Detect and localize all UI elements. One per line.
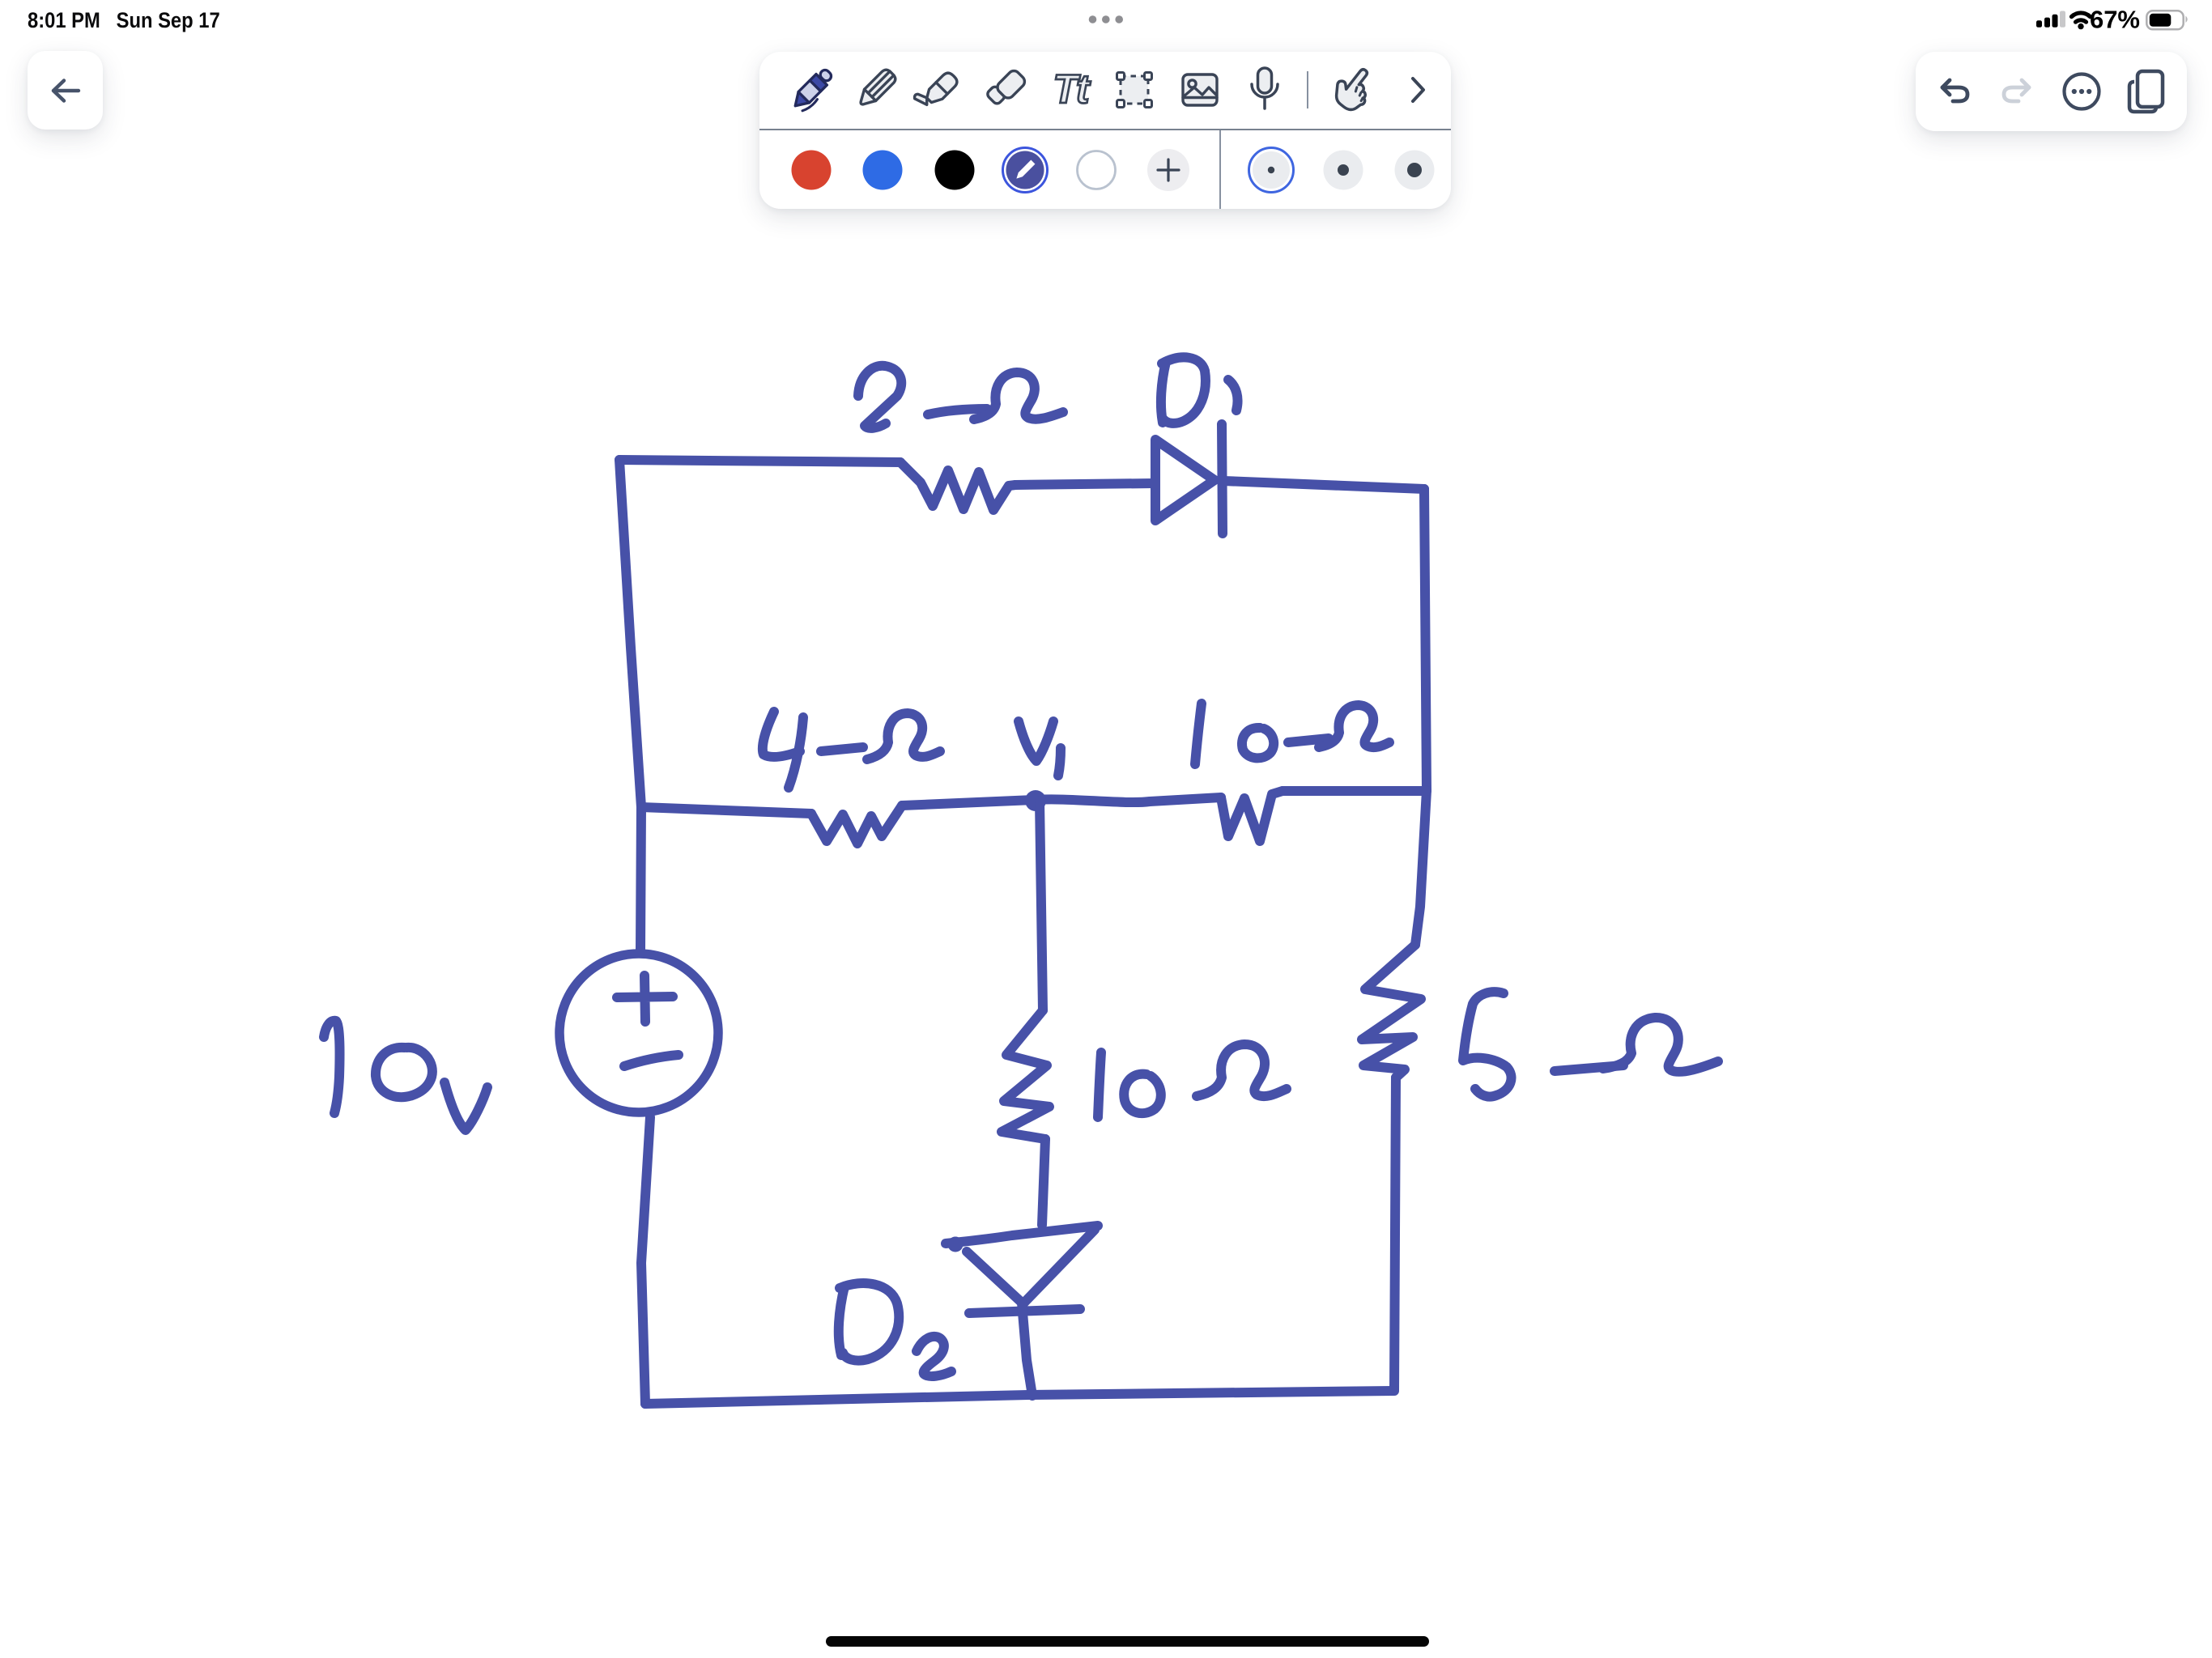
eraser tool (986, 67, 1027, 108)
duplicate (2129, 71, 2163, 112)
wire source bottom to corner (641, 1117, 650, 1404)
redo (2004, 80, 2029, 101)
back button panel (28, 51, 103, 130)
select tool (1117, 73, 1152, 108)
diode D2 cathode bar (969, 1309, 1080, 1313)
status bar center dots (1085, 15, 1134, 25)
add color plus (1147, 149, 1189, 191)
resistor R5 5ohm (1362, 945, 1421, 1078)
voltage source V 10V circle (559, 954, 718, 1112)
diode D2 triangle (967, 1230, 1095, 1303)
right panel: undo redo more duplicate (1916, 52, 2187, 131)
label 10ohm vertical (1098, 1052, 1101, 1117)
home indicator (826, 1636, 1429, 1647)
image tool (1183, 74, 1217, 105)
hand tool (1329, 62, 1380, 115)
stroke size medium (1324, 151, 1363, 190)
wire top from corner to R1 (619, 460, 900, 462)
wire left vertical (619, 460, 641, 950)
stroke size small (selected) (1249, 148, 1294, 193)
resistor R4 10ohm vertical (1002, 1010, 1049, 1139)
undo (1942, 80, 1967, 101)
wire R2 to node V1 (902, 800, 1035, 806)
label 4ohm (763, 712, 803, 788)
resistor R3 10ohm horizontal (1221, 791, 1283, 841)
wire R3 to right vertical (1283, 786, 1427, 796)
wire R5 to bottom-right corner (1394, 1078, 1396, 1390)
label 10ohm middle (1195, 704, 1202, 764)
diode D1 triangle (1155, 440, 1214, 521)
voltage source plus sign (617, 976, 673, 1022)
label D1 (1161, 357, 1206, 423)
label 5ohm (1463, 992, 1512, 1096)
main toolbar (759, 52, 1451, 209)
color selected indigo with pencil (1003, 148, 1048, 193)
label 10V (324, 1021, 340, 1113)
voltage source minus sign (624, 1055, 678, 1066)
label 2ohm (858, 366, 901, 428)
wire D2 to bottom (1022, 1303, 1032, 1396)
wire right vertical to R5 (1415, 790, 1427, 945)
status bar right: cellular, wifi, 67%, battery (2013, 0, 2212, 36)
color blue (863, 151, 903, 190)
stroke size large (1395, 151, 1435, 190)
wire right vertical upper (1424, 489, 1427, 790)
pencil tool (856, 67, 898, 109)
status bar left: clock (28, 8, 220, 33)
resistor R1 2ohm (900, 462, 1015, 510)
label D2 (839, 1283, 899, 1361)
mic tool (1252, 68, 1278, 108)
pen tool (selected) (789, 66, 836, 113)
color white (1078, 151, 1116, 189)
wire bottom (645, 1391, 1394, 1404)
diode D1 cathode bar (1222, 424, 1223, 534)
label V1 node (1019, 721, 1053, 761)
expand chevron (1413, 79, 1423, 101)
diode D2 anode line (946, 1226, 1098, 1243)
color red (792, 151, 832, 190)
resistor R2 4ohm (811, 806, 902, 844)
more circle (2065, 74, 2099, 109)
wire node V1 to R3 (1035, 797, 1221, 802)
node V1 junction dot (1025, 790, 1046, 811)
wire node V1 down to R4 (1040, 801, 1043, 1010)
highlighter tool (913, 66, 959, 113)
wire middle from left vertical to R2 (641, 807, 811, 814)
wire D1 to top-right corner (1223, 481, 1424, 489)
color black (935, 151, 975, 190)
wire R1 to D1 anode (1015, 483, 1153, 485)
wire R4 to D2 anode (1042, 1139, 1045, 1225)
